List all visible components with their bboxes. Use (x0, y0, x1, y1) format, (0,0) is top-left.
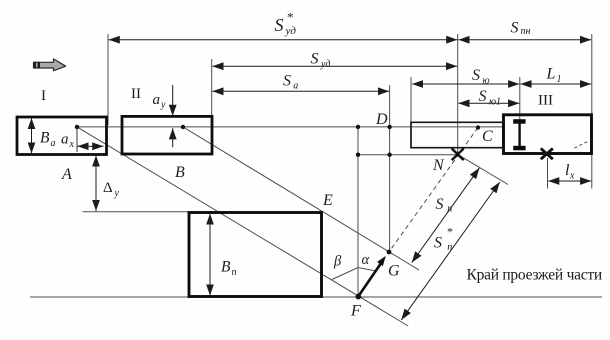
svg-text:1: 1 (557, 74, 562, 85)
trajectory of vehicle I through F (77, 127, 408, 326)
dimension Delta-y (95, 156, 97, 212)
svg-text:а: а (293, 81, 298, 92)
node F dot (356, 294, 362, 300)
dimension Syu (412, 83, 519, 85)
svg-text:x: x (569, 171, 575, 182)
trajectory of vehicle II through E to G (183, 127, 419, 270)
gray direction arrow top left (34, 59, 66, 71)
svg-text:S: S (434, 235, 442, 252)
X mark at point N (452, 149, 464, 161)
dimension lines (32, 40, 592, 320)
extension line x=212 (front of vehicle II) (211, 59, 213, 117)
dimension ay lower (172, 128, 174, 147)
svg-text:N: N (432, 157, 445, 174)
svg-text:a: a (153, 92, 161, 108)
dimension ay upper (172, 85, 174, 116)
svg-text:Край проезжей части: Край проезжей части (467, 267, 602, 284)
vertical through D and G (389, 85, 391, 252)
vehicle II (122, 116, 212, 154)
lateral line y=155 from F-vertical to N (358, 154, 458, 156)
svg-text:*: * (287, 10, 294, 25)
svg-text:B: B (40, 130, 50, 147)
X mark on vehicle III (541, 148, 553, 159)
vehicle I (17, 117, 107, 155)
svg-text:F: F (350, 303, 361, 320)
dimension Ba (31, 118, 33, 154)
velocity arrow F to G (358, 263, 381, 297)
svg-text:D: D (375, 111, 388, 128)
dashed tick inside vehicle III (575, 142, 588, 149)
extension line x=592 (rear of vehicle III) (591, 34, 593, 189)
svg-text:E: E (322, 192, 333, 209)
dimension Sp* (skid N to trajectory) (401, 182, 500, 320)
svg-text:пн: пн (521, 26, 531, 37)
dimension ax (77, 145, 103, 147)
svg-text:y: y (160, 100, 166, 111)
vehicle III (504, 115, 592, 154)
svg-text:β: β (333, 254, 342, 270)
junction dot x=358 on centre line (356, 125, 360, 129)
junction dot x=390 y=155 (387, 153, 391, 157)
front left wheel of vehicle III (513, 119, 525, 124)
ghost outline of vehicle II at impact (411, 122, 504, 147)
svg-text:B: B (175, 164, 185, 181)
svg-text:уд: уд (320, 59, 330, 70)
svg-text:п: п (447, 242, 452, 253)
svg-text:x: x (69, 139, 75, 150)
dimension lx (548, 180, 591, 182)
svg-text:B: B (221, 259, 231, 276)
svg-text:G: G (388, 263, 400, 280)
dimension Bp (209, 214, 211, 296)
svg-text:y: y (114, 188, 120, 199)
svg-text:а: а (51, 138, 56, 149)
tick below dot of vehicle I (76, 128, 78, 152)
obstacle Bp (189, 213, 322, 297)
svg-text:*: * (447, 225, 453, 239)
impact point dot on vehicle I (75, 125, 79, 129)
dimension Syu1 (458, 102, 519, 104)
svg-text:S: S (275, 15, 284, 35)
svg-text:S: S (511, 20, 519, 37)
svg-text:A: A (61, 166, 72, 183)
dimension Sa (212, 90, 389, 92)
svg-text:α: α (362, 252, 370, 268)
direction segment at N (458, 154, 509, 184)
node G dot (387, 250, 392, 255)
left kerb line y=212 (83, 211, 190, 213)
svg-text:Δ: Δ (103, 180, 113, 196)
svg-text:S: S (311, 51, 319, 68)
svg-text:уд: уд (285, 25, 297, 37)
node C dot (476, 125, 480, 129)
svg-text:ю: ю (483, 76, 490, 87)
svg-text:S: S (283, 73, 291, 90)
vertical through F (357, 127, 359, 297)
svg-text:II: II (131, 86, 141, 102)
dashed skid line C-N-G (389, 128, 478, 253)
angle chord beta-alpha (332, 268, 376, 280)
svg-text:п: п (232, 267, 237, 278)
svg-text:п: п (447, 204, 452, 215)
dimension Sud (212, 65, 457, 67)
dimension S*ud (109, 39, 458, 41)
node D dot (387, 125, 391, 129)
extension line below X of vehicle III (547, 158, 549, 189)
front axle of vehicle III (518, 121, 520, 149)
front right wheel of vehicle III (513, 146, 525, 151)
svg-text:L: L (546, 66, 556, 83)
svg-text:I: I (41, 88, 46, 104)
junction dot x=358 y=155 (356, 153, 360, 157)
svg-text:ю1: ю1 (489, 97, 501, 108)
dimension Sp (skid N to G) (412, 168, 480, 263)
svg-text:a: a (61, 132, 69, 148)
extension line x=458 down to N (457, 34, 459, 154)
road edge line (30, 296, 602, 298)
centre travel line y=127 (77, 126, 504, 128)
extension line x=520 (front axle of vehicle III) (519, 77, 521, 122)
impact point dot on vehicle II (181, 125, 185, 129)
svg-text:C: C (482, 128, 493, 145)
extension line x=411 (410, 77, 412, 122)
svg-text:S: S (436, 196, 444, 213)
svg-text:S: S (472, 67, 480, 84)
svg-text:S: S (479, 88, 487, 105)
dimension Spn (458, 39, 591, 41)
svg-text:III: III (538, 93, 553, 109)
dimension L1 (520, 83, 591, 85)
extension line x=108 (front of vehicle I) (107, 34, 109, 125)
